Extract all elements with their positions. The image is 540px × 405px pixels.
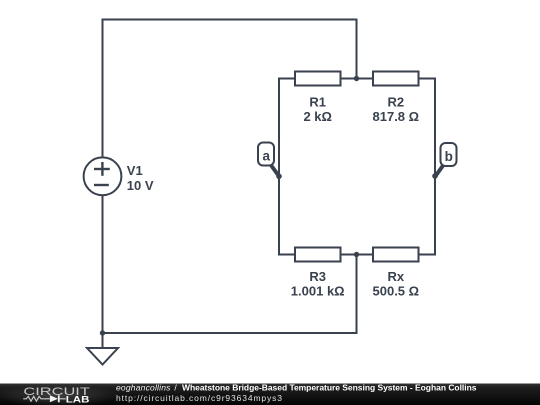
svg-text:R3: R3 (309, 269, 326, 284)
wire: V1 + terminal up, across top, down to bridge top node (103, 20, 357, 159)
ground (87, 333, 118, 365)
junction: ground node (100, 330, 105, 335)
svg-text:V1: V1 (127, 163, 143, 178)
svg-text:2 kΩ: 2 kΩ (303, 109, 332, 124)
svg-text:Rx: Rx (387, 269, 404, 284)
logo resistor squiggle (23, 396, 45, 401)
wire: bridge right vertical (node b) (434, 78, 436, 256)
svg-text:500.5 Ω: 500.5 Ω (373, 283, 420, 298)
footer title text (116, 383, 477, 393)
CircuitLab logo (23, 386, 90, 405)
logo diode (50, 395, 58, 402)
wire: bottom node down and left to ground rail (102, 255, 357, 334)
node b flag (432, 143, 456, 179)
wire: V1 - terminal down to ground rail (102, 195, 104, 333)
voltage source V1 (84, 157, 154, 195)
svg-text:a: a (262, 149, 270, 164)
wire: bridge top rail (278, 78, 435, 80)
svg-text:R2: R2 (387, 94, 404, 109)
svg-text:b: b (445, 149, 453, 164)
svg-text:817.8 Ω: 817.8 Ω (373, 109, 420, 124)
svg-text:Wheatstone Bridge-Based Temper: Wheatstone Bridge-Based Temperature Sens… (182, 383, 477, 393)
svg-text:10 V: 10 V (127, 178, 154, 193)
svg-text:1.001 kΩ: 1.001 kΩ (291, 283, 345, 298)
svg-text:http://circuitlab.com/c9r93634: http://circuitlab.com/c9r93634mpys3 (116, 393, 282, 403)
svg-text:R1: R1 (309, 94, 326, 109)
resistor R3 (291, 248, 345, 299)
resistor R1 (295, 72, 341, 124)
svg-text:LAB: LAB (66, 394, 90, 405)
wire: bridge bottom rail (278, 254, 435, 256)
node a flag (258, 143, 282, 180)
footer bar (0, 383, 540, 405)
wire: bridge left vertical (node a) (278, 78, 280, 256)
resistor R2 (373, 72, 420, 124)
junction: bridge bottom node (354, 252, 359, 257)
junction: bridge top node (354, 76, 359, 81)
resistor Rx (373, 248, 420, 299)
svg-text:eoghancollins: eoghancollins (116, 383, 171, 393)
